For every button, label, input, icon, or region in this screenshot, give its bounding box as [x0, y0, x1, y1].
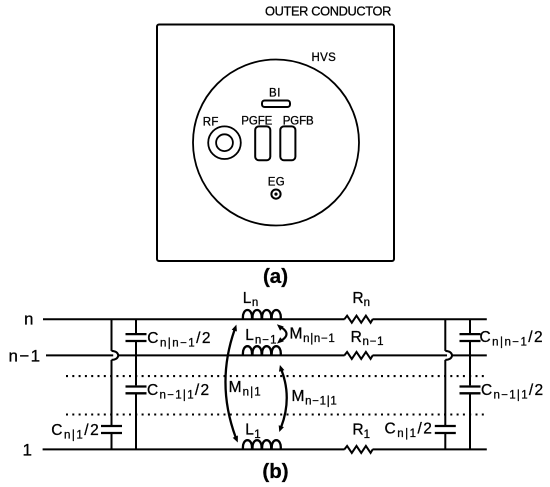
svg-text:BI: BI	[269, 88, 281, 100]
svg-text:HVS: HVS	[312, 52, 337, 64]
inductor L_n-1 coil	[243, 346, 281, 355]
wire line n-1	[46, 354, 487, 356]
resistor R_1 zigzag	[344, 446, 372, 453]
svg-text:1: 1	[23, 440, 32, 459]
PGFB slot	[280, 126, 295, 160]
wire V1 lower segment	[111, 360, 113, 425]
svg-text:n: n	[24, 310, 33, 329]
outer conductor square	[157, 25, 394, 262]
dotted separator upper	[66, 375, 485, 377]
wire V3 hop over n-1	[445, 351, 452, 360]
capacitor C_n|n-1/2 left plates	[126, 334, 147, 341]
wire V1 bottom segment	[111, 434, 113, 449]
EG port center dot	[274, 193, 277, 196]
wire V1 upper segment	[111, 319, 113, 351]
mutual M_n|n-1 arrow arc	[281, 327, 287, 341]
svg-text:(a): (a)	[263, 265, 288, 288]
capacitor C_n|1/2 left plates	[101, 426, 122, 433]
resistor R_n-1 zigzag	[344, 352, 372, 359]
svg-text:n−1: n−1	[9, 346, 42, 365]
wire V1 hop over n-1	[112, 351, 119, 360]
EG port circle	[271, 190, 280, 199]
wire V4 lower segment	[469, 394, 471, 449]
svg-text:(b): (b)	[262, 460, 288, 483]
inductor L_n coil	[243, 310, 281, 319]
wire line 1	[43, 448, 487, 450]
wire V3 upper segment	[444, 319, 446, 351]
RF port outer circle	[208, 126, 241, 159]
inductor L_1 coil	[243, 440, 281, 449]
capacitor C_n|1/2 right plates	[435, 426, 456, 433]
wire V4 upper segment	[469, 319, 471, 333]
wire V3 bottom segment	[444, 434, 446, 449]
svg-text:RF: RF	[203, 117, 219, 129]
wire V3 lower segment	[444, 360, 446, 425]
wire V2 upper segment	[135, 319, 137, 333]
BI slot	[262, 101, 290, 108]
mutual M_n-1|1 arrow arc	[281, 370, 287, 427]
capacitor C_n-1|1/2 left plates	[126, 387, 147, 394]
mutual M_n|1 arrow arc	[225, 330, 235, 438]
dotted separator lower	[66, 413, 485, 415]
svg-text:OUTER CONDUCTOR: OUTER CONDUCTOR	[265, 4, 391, 19]
PGFE slot	[255, 126, 270, 160]
wire V2 middle segment	[135, 342, 137, 385]
svg-text:EG: EG	[268, 177, 285, 189]
RF port inner circle	[216, 134, 233, 151]
wire V2 lower segment	[135, 394, 137, 449]
HVS circle	[193, 60, 359, 226]
wire line n	[43, 318, 487, 320]
wire V4 middle segment	[469, 342, 471, 385]
capacitor C_n-1|1/2 right plates	[460, 387, 481, 394]
resistor R_n zigzag	[344, 316, 372, 323]
capacitor C_n|n-1/2 right plates	[460, 334, 481, 341]
